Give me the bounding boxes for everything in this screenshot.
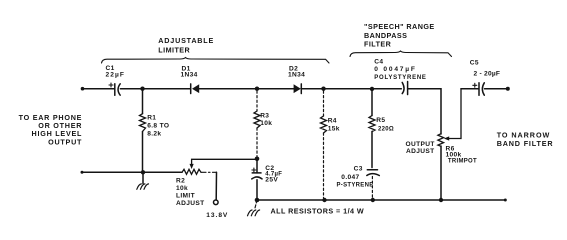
svg-text:C4: C4 [374, 59, 383, 66]
svg-text:25V: 25V [265, 177, 278, 184]
svg-text:R1: R1 [147, 115, 156, 122]
svg-text:R5: R5 [376, 117, 385, 124]
svg-text:OUTPUT: OUTPUT [48, 137, 82, 146]
wire R2 to 13.8V terminal [215, 172, 217, 199]
wire R6 bottom to ground rail [440, 146, 442, 200]
resistor R1 [140, 89, 146, 173]
svg-text:C5: C5 [470, 59, 479, 66]
label adjustable limiter [158, 36, 214, 54]
wire C1 to node A [120, 88, 142, 90]
node 13.8V terminal [214, 200, 219, 205]
node junction C3 bottom [371, 198, 375, 202]
diode D2 [294, 84, 302, 94]
svg-text:R3: R3 [260, 113, 269, 120]
R6 wiper arrow [444, 89, 461, 141]
brace speech range [350, 51, 452, 57]
node junction R6 bottom [439, 198, 443, 202]
svg-text:220Ω: 220Ω [378, 127, 394, 133]
ground 1 [137, 184, 149, 189]
node junction R3 bottom / C2 top [255, 157, 260, 162]
svg-text:FILTER: FILTER [364, 39, 392, 48]
svg-text:0 0047µF: 0 0047µF [374, 66, 416, 73]
node A junction C1/R1 [140, 87, 144, 91]
svg-text:BAND FILTER: BAND FILTER [497, 139, 554, 148]
node junction R1 bottom [141, 170, 145, 174]
node input terminal lower [81, 171, 84, 174]
svg-text:2 - 20µF: 2 - 20µF [474, 71, 501, 78]
svg-text:13.8V: 13.8V [206, 212, 228, 219]
wire lower-left rail [82, 171, 182, 173]
wire node C to node D [324, 88, 373, 90]
svg-text:10k: 10k [260, 120, 272, 127]
capacitor C1 [109, 83, 120, 95]
wire D2 to node C [301, 88, 323, 90]
wire stub to ground 2 [255, 200, 257, 208]
node C junction R4 top [321, 87, 325, 91]
svg-text:TRIMPOT: TRIMPOT [448, 159, 477, 165]
svg-text:100k: 100k [446, 152, 462, 159]
node output terminal upper [506, 87, 510, 91]
wire wiper corner to C5 [461, 88, 479, 90]
node junction C2 bottom [255, 198, 260, 203]
svg-text:"SPEECH" RANGE: "SPEECH" RANGE [364, 22, 435, 31]
brace adjustable limiter [102, 58, 330, 64]
capacitor C2 [252, 159, 262, 200]
svg-text:6.8 TO: 6.8 TO [147, 123, 169, 130]
wire node B to D2 [257, 88, 294, 90]
capacitor C3 [367, 170, 380, 198]
svg-text:ADJUST: ADJUST [406, 148, 434, 155]
R2 wiper arrow [190, 159, 258, 169]
svg-text:1N34: 1N34 [288, 71, 305, 78]
svg-text:1N34: 1N34 [181, 71, 198, 78]
resistor R6 trimpot zigzag [438, 134, 444, 147]
wire node A to D1 [143, 88, 191, 90]
potentiometer R2 zigzag [182, 169, 201, 174]
resistor R4 with dashed leads [321, 91, 327, 198]
capacitor C4 [402, 82, 407, 95]
wire C4 to corner then down to R6 [408, 89, 441, 134]
wire node D to C4 [372, 88, 401, 90]
svg-text:R2: R2 [176, 177, 185, 184]
resistor R3 with dashed leads [254, 91, 260, 157]
svg-text:ADJUSTABLE: ADJUSTABLE [158, 36, 214, 45]
svg-text:LIMITER: LIMITER [158, 45, 190, 54]
svg-text:0.047: 0.047 [341, 174, 359, 181]
svg-text:22µF: 22µF [106, 71, 126, 78]
node B junction R3 top [255, 87, 259, 91]
ground 2 [248, 210, 260, 216]
diode D1 [191, 84, 200, 94]
wire main top rail from input to C1 [83, 88, 114, 90]
svg-text:8.2k: 8.2k [147, 130, 161, 137]
svg-text:POLYSTYRENE: POLYSTYRENE [374, 75, 426, 81]
node D junction R5 top [370, 87, 374, 91]
wire R2 right lead dashed [201, 171, 217, 173]
resistor R5 [369, 91, 375, 168]
wire bottom ground rail [257, 199, 505, 201]
svg-text:C3: C3 [354, 165, 363, 172]
svg-text:OUTPUT: OUTPUT [406, 141, 435, 148]
svg-text:ALL RESISTORS = 1/4 W: ALL RESISTORS = 1/4 W [271, 207, 365, 216]
svg-text:P-STYRENE: P-STYRENE [337, 182, 374, 188]
wire C5 to output terminal [485, 88, 508, 90]
svg-text:15k: 15k [328, 125, 340, 132]
node junction R4 bottom [322, 198, 326, 202]
wire D1 to node B [199, 88, 257, 90]
svg-text:10k: 10k [176, 185, 188, 192]
svg-text:LIMIT: LIMIT [176, 192, 195, 199]
wire stub to ground 1 [142, 172, 144, 183]
svg-text:ADJUST: ADJUST [176, 200, 204, 207]
svg-text:R4: R4 [328, 118, 337, 125]
node output terminal lower [504, 199, 507, 202]
node input terminal upper [81, 87, 85, 91]
capacitor C5 [473, 83, 485, 95]
